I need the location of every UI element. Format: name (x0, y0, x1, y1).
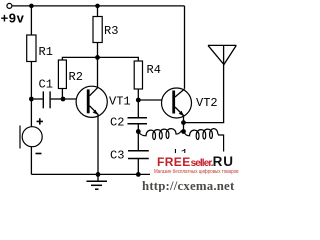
node emitter antenna feed (181, 120, 186, 125)
node R4/base VT2/C2 (136, 98, 141, 103)
watermark http://cxema.net (142, 180, 234, 193)
wire R1 bottom (30, 62, 32, 100)
svg-text:R3: R3 (104, 24, 118, 38)
resistor R1 (27, 35, 36, 62)
svg-text:C3: C3 (110, 149, 124, 163)
wire R3 top (97, 6, 99, 17)
svg-text:R1: R1 (39, 45, 53, 59)
node ground rail C3 (136, 172, 141, 177)
node R1/C1/mic (29, 97, 34, 102)
node top rail R1 (29, 4, 34, 9)
antenna W1 (208, 45, 236, 64)
inductor L2 (184, 129, 224, 152)
wire ground rail (31, 173, 150, 175)
wire antenna feed (184, 45, 224, 122)
resistor R4 (134, 61, 142, 89)
wire C2 bottom (137, 124, 139, 131)
wire C2 top (137, 100, 139, 117)
wire VT1 emitter (97, 114, 99, 174)
wire VT2 emitter (183, 115, 185, 132)
svg-text:R4: R4 (147, 63, 161, 77)
transistor VT2 (162, 88, 192, 118)
node C2/C3/L1 (136, 129, 141, 134)
wire R1 top (30, 6, 32, 35)
wire base VT2 (138, 99, 172, 101)
transistor VT1 (76, 86, 107, 117)
capacitor C3 (128, 151, 149, 159)
wire C3 bottom (137, 159, 139, 174)
terminal +9v supply (7, 3, 12, 8)
node collector VT1 (95, 55, 100, 60)
wire C3 top (137, 132, 139, 151)
wire node to R4 top (98, 57, 139, 61)
wire top rail (12, 5, 184, 7)
wire base VT1 (63, 98, 87, 100)
svg-text:R2: R2 (69, 70, 83, 84)
logo text FREEseller.RU (157, 156, 234, 170)
resistor R3 (93, 17, 102, 43)
wire R3 bottom / VT1 collector (97, 43, 99, 88)
inductor L1 (138, 129, 181, 140)
svg-text:VT2: VT2 (196, 96, 218, 110)
node top rail R3 (95, 4, 100, 9)
microphone BM1 (20, 99, 43, 174)
logo slogan red (154, 170, 239, 175)
ground (87, 174, 108, 189)
svg-text:C2: C2 (110, 116, 124, 130)
node L1 L2 (181, 129, 186, 134)
logo FREEseller.RU watermark box (150, 153, 244, 182)
wire VT2 collector drop (184, 6, 186, 89)
node C1/R2/base VT1 (61, 97, 66, 102)
resistor R2 (58, 60, 66, 89)
wire R4 bottom (137, 89, 139, 100)
svg-text:+9v: +9v (1, 10, 25, 25)
wire R2 bottom (61, 89, 63, 100)
svg-text:C1: C1 (39, 77, 53, 91)
node ground rail emitter (96, 172, 101, 177)
wire R2 top to node (62, 57, 97, 60)
svg-text:VT1: VT1 (109, 95, 131, 109)
capacitor C2 (128, 118, 148, 124)
capacitor C1 (34, 91, 63, 108)
